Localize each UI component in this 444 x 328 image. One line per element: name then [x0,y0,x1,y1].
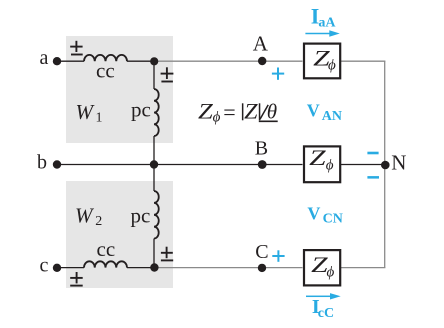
svg-text:c: c [40,255,49,277]
svg-text:cc: cc [96,59,115,83]
svg-text:ϕ: ϕ [328,57,336,73]
svg-text:W: W [76,100,96,124]
svg-text:W: W [75,203,95,227]
svg-text:Z: Z [198,98,214,123]
svg-text:=: = [223,100,235,125]
svg-text:a: a [40,47,49,69]
svg-text:A: A [253,32,269,56]
svg-text:N: N [391,151,406,175]
svg-text:θ: θ [267,100,277,124]
svg-text:b: b [37,152,47,174]
svg-text:V: V [307,101,320,121]
svg-text:CN: CN [323,211,343,226]
svg-text:Z: Z [244,98,258,123]
svg-text:cC: cC [318,306,334,321]
svg-text:pc: pc [131,98,151,122]
svg-text:ϕ: ϕ [327,265,335,281]
svg-text:cc: cc [97,237,116,261]
svg-text:2: 2 [95,214,102,229]
svg-text:B: B [255,137,268,159]
svg-text:aA: aA [318,16,336,31]
svg-text:Z: Z [309,145,327,170]
svg-text:AN: AN [322,109,342,124]
svg-text:pc: pc [131,204,151,228]
svg-text:C: C [255,241,268,263]
svg-text:1: 1 [96,111,103,126]
svg-text:ϕ: ϕ [326,157,334,173]
svg-text:V: V [307,203,320,223]
svg-text:ϕ: ϕ [213,109,221,125]
